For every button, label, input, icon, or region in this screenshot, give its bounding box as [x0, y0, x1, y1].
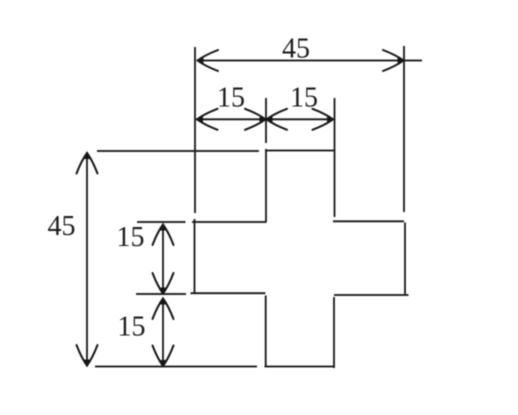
extension line right of top 45 dimension	[403, 46, 405, 212]
svg-text:15: 15	[217, 82, 245, 113]
svg-text:15: 15	[118, 312, 146, 343]
cross outline vertical arm left edge upper	[265, 149, 267, 222]
extension line top of left 45 dimension	[97, 150, 259, 152]
cross outline vertical arm left edge lower	[265, 296, 267, 367]
arrowhead bottom of upper 15 vertical dimension	[153, 273, 174, 295]
cross outline left arm bottom edge	[191, 292, 266, 294]
arrowhead middle left-pointing of second 15 span	[266, 109, 288, 130]
arrowhead top of upper 15 vertical dimension	[153, 224, 174, 246]
dimension line 45 top	[197, 60, 422, 62]
extension line middle split of 15 vertical dimensions	[136, 293, 186, 295]
cross outline right arm top edge	[333, 220, 404, 222]
arrowhead right of 15-15 dimension	[313, 109, 335, 130]
arrowhead bottom of lower 15 vertical dimension	[153, 346, 174, 368]
cross outline left edge	[194, 219, 196, 293]
cross outline left arm top edge	[192, 221, 267, 223]
dimension line 15 middle vertical upper	[162, 224, 164, 294]
extension line bottom of left 45 dimension	[95, 366, 257, 368]
arrowhead left of 15-15 dimension	[196, 109, 218, 130]
dimension line 15-15	[196, 118, 335, 120]
svg-text:45: 45	[282, 34, 310, 65]
cross outline top edge	[265, 150, 334, 152]
arrowhead right of top 45 dimension	[383, 50, 405, 71]
arrowhead top of left 45 dimension	[77, 152, 98, 174]
extension line left of top 45 dimension	[194, 47, 196, 213]
dimension line 15 lower vertical	[162, 298, 164, 367]
cross outline right arm bottom edge	[334, 294, 409, 296]
extension line middle of 15-15 dimension	[265, 98, 267, 143]
extension line right of 15-15 dimension merged with cross right edge top	[334, 98, 336, 217]
arrowhead middle right-pointing of first 15 span	[245, 109, 267, 130]
extension line top of upper 15 vertical dimension	[137, 221, 186, 223]
svg-text:45: 45	[48, 211, 76, 242]
cross outline bottom edge	[265, 366, 335, 368]
cross outline right arm right edge	[404, 223, 406, 295]
dimension line 45 left vertical	[86, 152, 88, 367]
cross outline vertical arm right edge lower	[333, 297, 335, 368]
arrowhead left of top 45 dimension	[197, 50, 219, 71]
arrowhead bottom of left 45 dimension	[77, 345, 98, 367]
svg-text:15: 15	[290, 82, 318, 113]
arrowhead top of lower 15 vertical dimension	[153, 298, 174, 320]
svg-text:15: 15	[117, 222, 145, 253]
